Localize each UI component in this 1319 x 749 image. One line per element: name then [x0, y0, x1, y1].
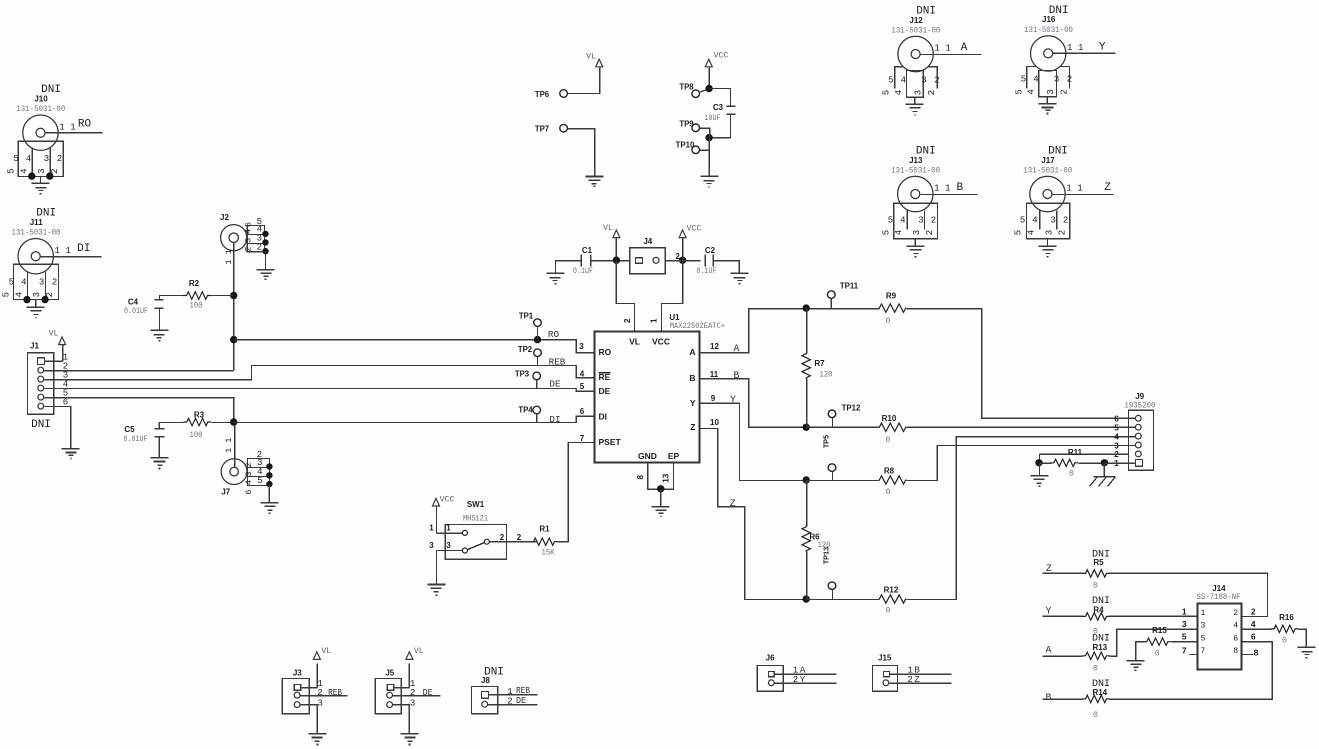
svg-text:TP8: TP8: [679, 82, 694, 91]
svg-text:5: 5: [1014, 230, 1024, 235]
svg-text:2: 2: [50, 168, 60, 173]
svg-text:9: 9: [711, 394, 716, 403]
svg-text:8: 8: [1233, 647, 1238, 656]
svg-text:2: 2: [45, 292, 55, 297]
svg-text:3: 3: [913, 90, 923, 95]
svg-text:0: 0: [886, 607, 891, 616]
svg-text:5: 5: [888, 215, 893, 225]
svg-text:R13: R13: [1092, 643, 1107, 652]
svg-text:0.01UF: 0.01UF: [124, 307, 148, 316]
svg-text:VL: VL: [629, 337, 640, 347]
svg-text:SS-7188-NF: SS-7188-NF: [1197, 593, 1241, 602]
svg-text:TP12: TP12: [842, 403, 861, 412]
svg-text:TP13: TP13: [822, 547, 831, 564]
svg-text:J11: J11: [30, 218, 43, 227]
svg-text:3: 3: [1044, 230, 1054, 235]
svg-text:2: 2: [931, 215, 936, 225]
svg-text:3: 3: [446, 541, 451, 550]
svg-text:2: 2: [1067, 75, 1072, 85]
svg-text:1 1: 1 1: [224, 438, 234, 453]
svg-text:VL: VL: [414, 647, 424, 656]
svg-text:13: 13: [662, 473, 671, 482]
svg-text:DE: DE: [423, 687, 433, 698]
svg-text:R3: R3: [194, 411, 205, 420]
svg-text:1: 1: [507, 687, 512, 697]
svg-text:3: 3: [912, 230, 922, 235]
svg-text:Y: Y: [1046, 605, 1052, 616]
svg-text:6: 6: [1114, 415, 1119, 424]
svg-text:RO: RO: [599, 347, 612, 357]
svg-text:RE: RE: [599, 372, 611, 382]
svg-text:4: 4: [894, 90, 904, 95]
svg-text:5: 5: [13, 154, 18, 164]
svg-text:2: 2: [257, 242, 262, 252]
svg-text:2: 2: [244, 247, 254, 252]
svg-text:VL: VL: [586, 53, 596, 62]
svg-text:VCC: VCC: [687, 224, 702, 233]
svg-text:5: 5: [882, 90, 892, 95]
svg-text:131-5031-00: 131-5031-00: [891, 27, 940, 36]
svg-text:5: 5: [1114, 424, 1119, 433]
svg-text:C1: C1: [582, 246, 593, 255]
svg-text:2: 2: [1060, 89, 1070, 94]
svg-text:3: 3: [1114, 441, 1119, 450]
svg-text:Z: Z: [1046, 563, 1052, 574]
svg-text:2: 2: [500, 533, 505, 542]
svg-text:U1: U1: [669, 313, 680, 322]
svg-text:12: 12: [710, 342, 719, 351]
svg-text:B: B: [956, 182, 963, 194]
svg-text:TP5: TP5: [822, 435, 831, 448]
svg-text:RO: RO: [548, 329, 560, 340]
svg-text:5: 5: [1182, 632, 1187, 642]
svg-text:3: 3: [1050, 215, 1055, 225]
svg-text:1: 1: [934, 184, 939, 194]
svg-text:2: 2: [52, 278, 57, 288]
svg-text:VL: VL: [603, 224, 613, 233]
svg-text:Y: Y: [1099, 42, 1106, 54]
svg-text:MAX22502EATC+: MAX22502EATC+: [670, 322, 725, 331]
svg-text:5: 5: [257, 476, 262, 486]
svg-text:5: 5: [580, 382, 585, 391]
svg-text:4: 4: [1233, 622, 1238, 631]
svg-text:4: 4: [21, 278, 26, 288]
svg-text:MHS121: MHS121: [463, 514, 488, 523]
svg-text:J2: J2: [220, 213, 229, 222]
svg-text:R8: R8: [884, 466, 895, 475]
svg-text:6: 6: [244, 489, 254, 494]
svg-text:J12: J12: [909, 16, 923, 25]
svg-text:VCC: VCC: [652, 337, 670, 347]
svg-text:5: 5: [9, 278, 14, 288]
svg-text:R5: R5: [1093, 558, 1104, 567]
svg-text:4: 4: [901, 75, 906, 85]
svg-text:0.1UF: 0.1UF: [573, 267, 593, 276]
svg-text:3: 3: [1046, 89, 1056, 94]
svg-text:6: 6: [1233, 634, 1238, 643]
svg-text:131-5031-00: 131-5031-00: [1024, 26, 1073, 35]
svg-text:10UF: 10UF: [705, 114, 721, 123]
svg-text:3: 3: [244, 471, 254, 476]
svg-text:0: 0: [1093, 711, 1098, 720]
svg-text:8: 8: [636, 475, 645, 480]
svg-text:J4: J4: [643, 237, 652, 246]
svg-text:2: 2: [410, 688, 415, 698]
svg-text:11: 11: [710, 370, 719, 379]
svg-text:DE: DE: [549, 379, 561, 390]
svg-text:5: 5: [2, 292, 12, 297]
svg-text:0: 0: [1069, 469, 1074, 478]
svg-text:3: 3: [429, 541, 434, 550]
svg-text:0: 0: [886, 436, 891, 445]
svg-text:2: 2: [925, 230, 935, 235]
svg-text:131-5031-00: 131-5031-00: [891, 167, 940, 176]
svg-text:2: 2: [507, 697, 512, 707]
svg-text:2: 2: [927, 90, 937, 95]
svg-text:2: 2: [907, 675, 912, 685]
svg-text:3: 3: [317, 698, 322, 708]
svg-text:J8: J8: [481, 676, 490, 685]
svg-text:0: 0: [886, 317, 891, 326]
svg-text:R15: R15: [1152, 626, 1167, 635]
svg-text:4: 4: [1032, 215, 1037, 225]
svg-text:0: 0: [1093, 664, 1098, 673]
svg-text:4: 4: [894, 230, 904, 235]
svg-text:1935200: 1935200: [1124, 401, 1155, 410]
svg-text:3: 3: [32, 292, 42, 297]
svg-text:B: B: [1046, 692, 1052, 703]
svg-text:3: 3: [1201, 622, 1206, 631]
svg-text:4: 4: [15, 292, 25, 297]
svg-text:R10: R10: [882, 414, 897, 423]
svg-text:A: A: [733, 343, 739, 354]
svg-text:TP3: TP3: [515, 369, 530, 378]
svg-text:4: 4: [244, 480, 254, 485]
svg-text:2: 2: [57, 154, 62, 164]
svg-text:3: 3: [579, 342, 584, 351]
svg-text:DE: DE: [599, 386, 611, 396]
svg-text:6: 6: [580, 407, 585, 416]
svg-text:1: 1: [1078, 43, 1083, 53]
svg-text:1: 1: [1201, 609, 1206, 618]
svg-text:1: 1: [793, 665, 798, 675]
svg-text:J5: J5: [385, 669, 394, 678]
svg-text:1: 1: [1077, 184, 1082, 194]
svg-text:A: A: [689, 347, 695, 357]
svg-text:4: 4: [26, 154, 31, 164]
svg-text:1: 1: [70, 122, 75, 132]
svg-text:Z: Z: [730, 498, 736, 509]
svg-text:J15: J15: [878, 653, 892, 662]
svg-text:7: 7: [580, 434, 585, 443]
svg-text:R2: R2: [189, 279, 200, 288]
svg-text:TP7: TP7: [535, 125, 549, 134]
svg-text:C3: C3: [713, 103, 724, 112]
svg-text:J10: J10: [34, 95, 48, 104]
svg-text:100: 100: [190, 302, 203, 311]
svg-text:5: 5: [1020, 215, 1025, 225]
svg-text:J6: J6: [766, 653, 775, 662]
svg-text:R1: R1: [539, 524, 550, 533]
svg-text:VL: VL: [49, 330, 59, 339]
svg-text:R12: R12: [884, 585, 899, 594]
svg-text:131-5031-00: 131-5031-00: [12, 229, 61, 238]
svg-text:TP4: TP4: [518, 406, 533, 415]
svg-text:J13: J13: [909, 156, 923, 165]
svg-text:4: 4: [1251, 619, 1256, 629]
svg-text:100: 100: [190, 431, 203, 440]
svg-text:J7: J7: [221, 488, 230, 497]
svg-text:2: 2: [317, 688, 322, 698]
svg-text:C2: C2: [705, 246, 716, 255]
svg-text:SW1: SW1: [467, 500, 485, 509]
svg-text:1: 1: [1182, 606, 1187, 616]
svg-text:5: 5: [1201, 634, 1206, 643]
svg-text:3: 3: [1054, 75, 1059, 85]
svg-text:2: 2: [1251, 606, 1256, 616]
svg-text:PSET: PSET: [599, 437, 622, 447]
svg-text:3: 3: [918, 215, 923, 225]
svg-text:VCC: VCC: [440, 496, 455, 505]
svg-text:2: 2: [934, 75, 939, 85]
svg-text:Z: Z: [914, 674, 920, 685]
svg-text:7: 7: [1182, 645, 1187, 655]
svg-text:5: 5: [1021, 75, 1026, 85]
svg-text:0: 0: [1282, 637, 1287, 646]
svg-text:R16: R16: [1279, 613, 1294, 622]
svg-text:4: 4: [20, 168, 30, 173]
svg-text:2: 2: [244, 462, 254, 467]
svg-text:R4: R4: [1093, 605, 1104, 614]
svg-text:J14: J14: [1212, 584, 1226, 593]
svg-text:DI: DI: [549, 414, 560, 425]
svg-text:4: 4: [1114, 432, 1119, 441]
svg-text:1: 1: [54, 246, 59, 256]
svg-text:4: 4: [1026, 89, 1036, 94]
svg-text:B: B: [689, 373, 695, 383]
svg-text:8: 8: [1254, 647, 1259, 657]
svg-text:1: 1: [934, 44, 939, 54]
svg-text:3: 3: [37, 168, 47, 173]
svg-text:1: 1: [907, 665, 912, 675]
svg-text:Y: Y: [690, 398, 696, 408]
svg-text:R11: R11: [1068, 448, 1083, 457]
svg-text:7: 7: [1201, 647, 1206, 656]
svg-text:TP9: TP9: [679, 119, 694, 128]
svg-text:5: 5: [1014, 89, 1024, 94]
svg-text:DI: DI: [599, 411, 608, 421]
svg-text:6: 6: [244, 222, 254, 227]
svg-text:4: 4: [580, 370, 585, 379]
svg-text:3: 3: [244, 238, 254, 243]
svg-text:TP11: TP11: [840, 282, 859, 291]
svg-text:5: 5: [881, 230, 891, 235]
svg-text:R14: R14: [1092, 688, 1107, 697]
svg-text:1: 1: [429, 524, 434, 533]
svg-text:REB: REB: [549, 357, 566, 368]
svg-text:4: 4: [1033, 75, 1038, 85]
svg-text:10: 10: [710, 418, 719, 427]
svg-text:J1: J1: [30, 342, 39, 351]
svg-text:2: 2: [1063, 215, 1068, 225]
svg-text:0: 0: [886, 488, 891, 497]
svg-text:0: 0: [1155, 649, 1160, 658]
svg-text:5: 5: [7, 168, 17, 173]
svg-text:GND: GND: [638, 451, 657, 461]
svg-text:4: 4: [1026, 230, 1036, 235]
svg-text:VCC: VCC: [714, 52, 729, 61]
svg-text:TP6: TP6: [535, 90, 550, 99]
svg-text:6: 6: [1251, 632, 1256, 642]
svg-text:4: 4: [900, 215, 905, 225]
svg-text:Z: Z: [1104, 182, 1111, 194]
svg-text:VL: VL: [321, 647, 331, 656]
svg-text:120: 120: [820, 370, 833, 379]
svg-text:2: 2: [793, 675, 798, 685]
svg-text:2: 2: [1233, 609, 1238, 618]
svg-text:R9: R9: [886, 291, 897, 300]
svg-text:Y: Y: [730, 394, 736, 405]
svg-text:0: 0: [1093, 582, 1098, 591]
svg-text:1 1: 1 1: [224, 249, 234, 264]
svg-text:15K: 15K: [542, 549, 555, 558]
svg-text:1: 1: [945, 184, 950, 194]
svg-text:J9: J9: [1135, 392, 1144, 401]
svg-text:TP2: TP2: [518, 345, 533, 354]
svg-text:1: 1: [1066, 184, 1071, 194]
svg-text:1: 1: [446, 524, 451, 533]
svg-text:B: B: [733, 370, 739, 381]
svg-text:1: 1: [1067, 43, 1072, 53]
svg-text:TP1: TP1: [519, 311, 534, 320]
svg-text:3: 3: [39, 278, 44, 288]
svg-text:J3: J3: [293, 669, 302, 678]
svg-text:0.01UF: 0.01UF: [124, 435, 148, 444]
svg-text:2: 2: [623, 318, 632, 323]
svg-text:3: 3: [921, 75, 926, 85]
svg-text:REB: REB: [328, 687, 342, 698]
svg-text:A: A: [1046, 645, 1052, 656]
svg-text:131-5031-00: 131-5031-00: [1023, 167, 1072, 176]
svg-text:J16: J16: [1042, 15, 1056, 24]
svg-text:1: 1: [59, 122, 64, 132]
svg-text:131-5031-00: 131-5031-00: [16, 105, 65, 114]
svg-text:2: 2: [517, 533, 522, 542]
svg-text:DNI: DNI: [31, 419, 51, 431]
svg-text:EP: EP: [668, 451, 680, 461]
svg-text:5: 5: [888, 75, 893, 85]
svg-text:Y: Y: [800, 674, 806, 685]
svg-text:DE: DE: [516, 695, 526, 706]
svg-text:1: 1: [945, 44, 950, 54]
svg-text:1: 1: [65, 246, 70, 256]
svg-text:4: 4: [244, 229, 254, 234]
svg-text:2: 2: [1057, 230, 1067, 235]
svg-text:0.1UF: 0.1UF: [696, 267, 716, 276]
svg-text:C4: C4: [128, 297, 139, 306]
svg-text:J17: J17: [1041, 156, 1055, 165]
svg-text:1: 1: [650, 318, 659, 323]
svg-text:Z: Z: [690, 422, 695, 432]
svg-text:A: A: [961, 42, 968, 54]
svg-text:R7: R7: [814, 359, 825, 368]
svg-text:3: 3: [410, 698, 415, 708]
svg-text:DI: DI: [77, 243, 90, 255]
svg-text:3: 3: [1182, 619, 1187, 629]
svg-text:RO: RO: [78, 118, 92, 130]
svg-text:3: 3: [44, 154, 49, 164]
svg-text:C5: C5: [124, 425, 135, 434]
svg-text:TP10: TP10: [676, 141, 695, 150]
